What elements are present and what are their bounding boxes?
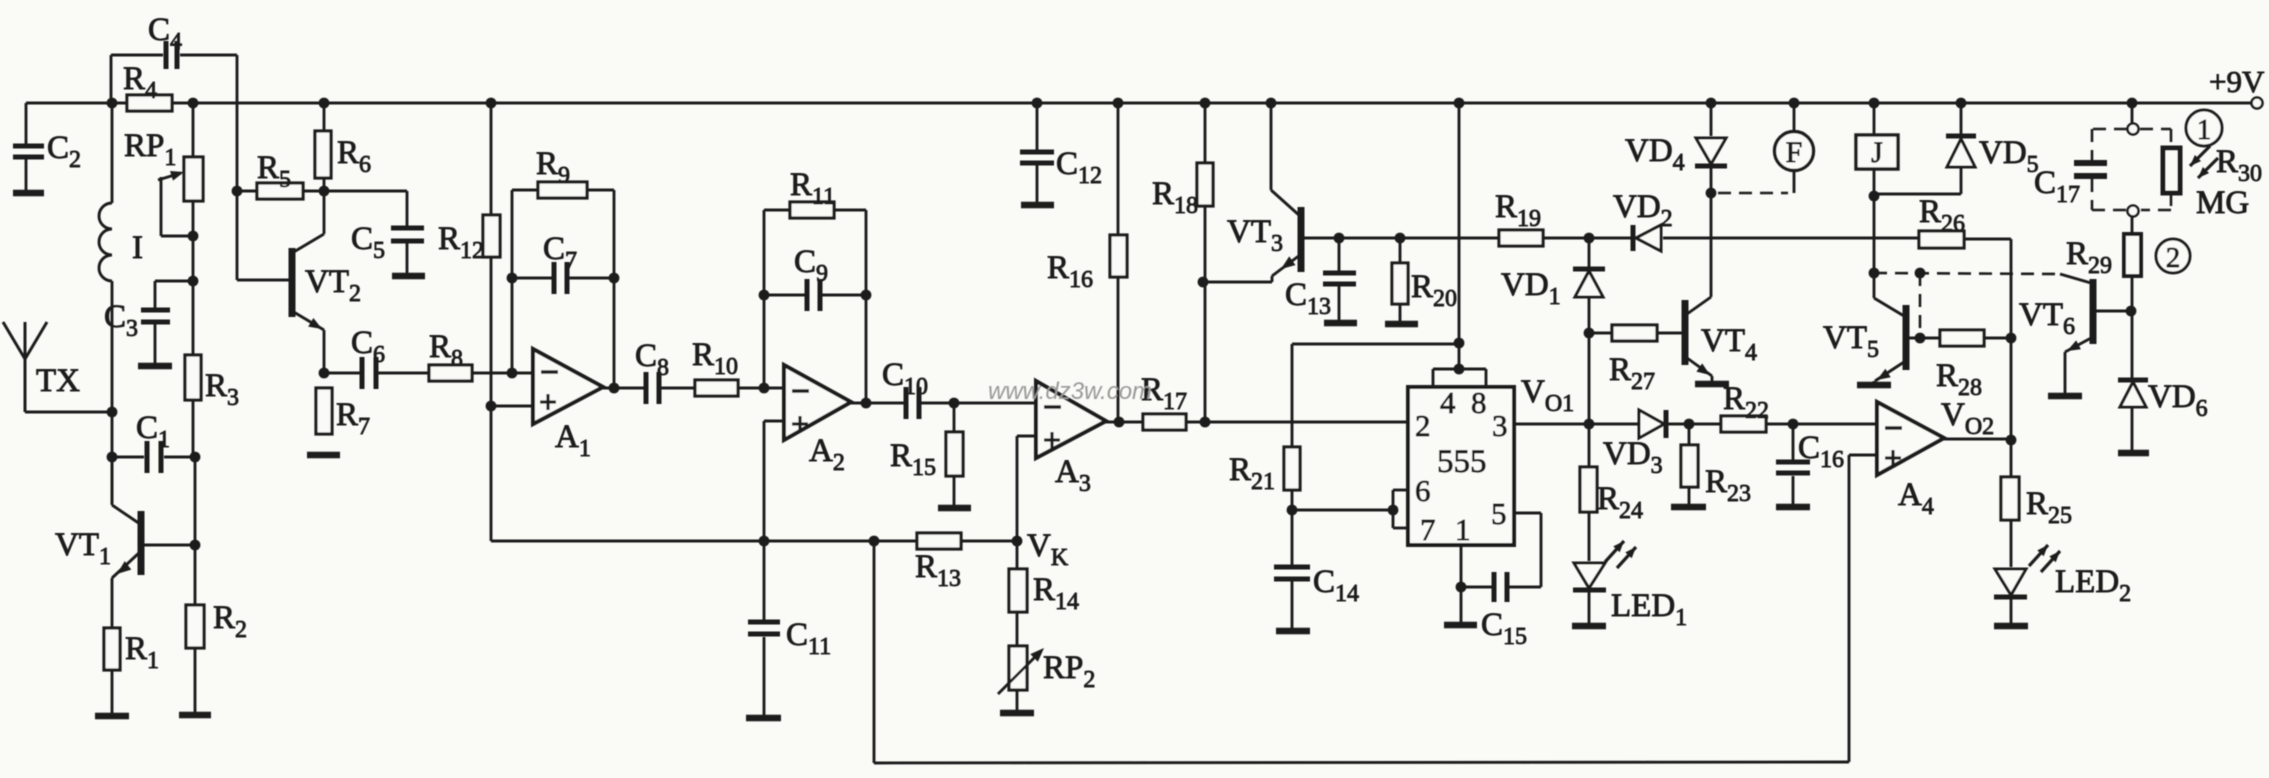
svg-text:7: 7 xyxy=(1420,512,1436,547)
svg-text:MG: MG xyxy=(2196,185,2249,221)
svg-text:555: 555 xyxy=(1437,444,1487,480)
svg-text:8: 8 xyxy=(1471,385,1487,420)
svg-text:5: 5 xyxy=(1491,496,1507,531)
svg-text:4: 4 xyxy=(1440,385,1456,420)
svg-text:TX: TX xyxy=(36,363,80,399)
svg-text:F: F xyxy=(1786,136,1803,169)
svg-text:2: 2 xyxy=(2166,242,2181,274)
svg-text:1: 1 xyxy=(2197,114,2212,146)
svg-text:1: 1 xyxy=(1455,512,1471,547)
svg-text:6: 6 xyxy=(1415,473,1431,508)
svg-text:3: 3 xyxy=(1492,408,1508,443)
svg-text:www.dz3w.com: www.dz3w.com xyxy=(988,378,1152,405)
svg-text:2: 2 xyxy=(1415,408,1431,443)
svg-text:+9V: +9V xyxy=(2209,64,2265,99)
svg-text:J: J xyxy=(1871,136,1883,169)
svg-text:I: I xyxy=(132,230,143,266)
